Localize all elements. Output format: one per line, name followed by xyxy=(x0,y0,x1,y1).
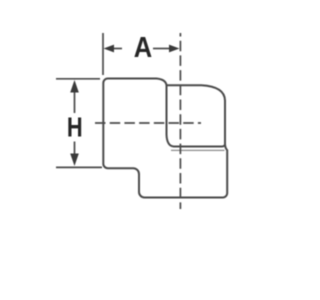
dimension H line bottom segment xyxy=(74,142,76,156)
dimension H top arrowhead xyxy=(70,80,79,93)
elbow body outline xyxy=(103,79,227,198)
svg-text:A: A xyxy=(134,31,152,64)
vertical centerline xyxy=(179,33,181,209)
dimension A extension line xyxy=(102,33,104,75)
dimension H line top segment xyxy=(74,92,76,113)
union nut (upper-right square) front edges xyxy=(167,85,226,146)
dimension H bottom extension line xyxy=(56,166,102,168)
dimension H top extension line xyxy=(56,78,100,80)
dimension A line right segment xyxy=(153,48,169,50)
horizontal centerline xyxy=(95,122,201,124)
dimension A line left segment xyxy=(113,48,122,50)
dimension A left arrowhead xyxy=(104,45,115,53)
svg-text:H: H xyxy=(67,112,83,143)
dimension A right arrowhead xyxy=(169,45,180,53)
lower hub top edge (behind nut) xyxy=(171,149,225,151)
dimension H bottom arrowhead xyxy=(70,154,79,167)
